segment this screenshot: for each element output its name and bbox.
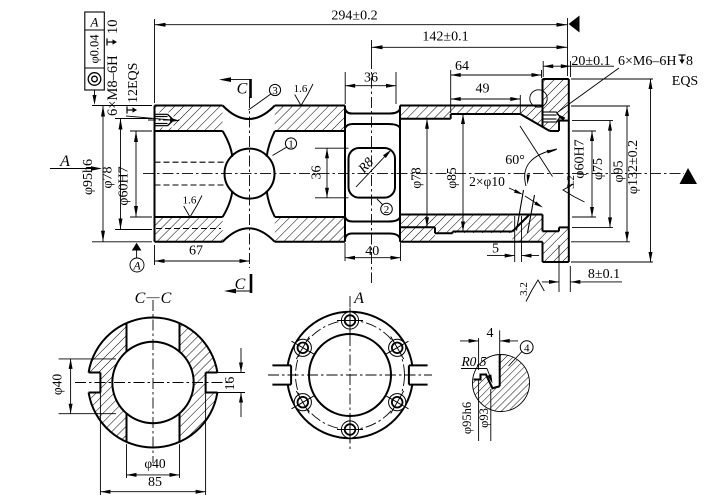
- view A outer circle: [288, 312, 413, 366]
- window opening 36x36 R8: [349, 148, 396, 198]
- recess face top: [558, 121, 560, 131]
- svg-text:—: —: [146, 289, 161, 304]
- dimension phi85: [462, 114, 464, 232]
- main axis centerline: [143, 173, 684, 175]
- svg-text:1: 1: [288, 139, 294, 151]
- svg-text:φ93: φ93: [477, 408, 491, 428]
- bore phi60 top-left: [155, 130, 223, 132]
- svg-text:5: 5: [492, 242, 499, 257]
- svg-text:φ95h6: φ95h6: [460, 402, 474, 434]
- svg-text:8: 8: [686, 54, 693, 69]
- svg-text:2×φ10: 2×φ10: [469, 174, 505, 189]
- detail 4 profile: [474, 375, 500, 389]
- dimension phi93 detail: [490, 389, 492, 441]
- dimension phi95: [571, 105, 630, 107]
- datum triangle right: [569, 16, 580, 33]
- svg-text:φ95h6: φ95h6: [81, 159, 96, 195]
- balloon 1: [285, 138, 296, 149]
- cross hole phi40: [225, 149, 275, 199]
- flange bottom: [543, 261, 569, 263]
- section C-C hatching: [88, 317, 218, 447]
- svg-text:C: C: [235, 276, 246, 293]
- svg-text:2: 2: [384, 204, 390, 216]
- detail boundary circle: [530, 90, 547, 107]
- hatch flange top region: [520, 79, 569, 131]
- bolt circle hidden line bottom: [156, 228, 221, 230]
- svg-text:6×M8–6H: 6×M8–6H: [105, 55, 121, 116]
- dimension phi60H7 right: [572, 130, 596, 132]
- inner line bottom h1: [400, 214, 543, 216]
- svg-text:4: 4: [487, 326, 494, 341]
- slot line b: [453, 231, 513, 233]
- M8 hole centerline: [148, 119, 179, 121]
- svg-text:R0.5: R0.5: [460, 354, 486, 369]
- neck saddle arc top: [223, 106, 275, 120]
- recess phi75 top: [559, 120, 569, 122]
- slot hidden lines: [155, 161, 225, 163]
- dimension 49: [519, 95, 521, 113]
- dimension phi95h6 detail: [478, 380, 480, 442]
- balloon 3: [269, 84, 280, 95]
- cross hole centerline: [249, 97, 251, 268]
- svg-text:φ0.04: φ0.04: [88, 34, 102, 64]
- recess phi75 bottom: [559, 226, 569, 228]
- cutting plane line C bottom: [250, 274, 253, 293]
- slot step: [452, 232, 454, 234]
- svg-text:φ78: φ78: [101, 166, 116, 188]
- dimension 40: [344, 243, 346, 261]
- hole blend arcs: [223, 131, 233, 157]
- cone 60deg top: [520, 114, 549, 131]
- section C-C outer arcs: [89, 317, 218, 372]
- dimension 67: [154, 245, 156, 265]
- roughness 3.2 right face: [563, 184, 585, 202]
- hatch bottom-mid band: [275, 217, 345, 242]
- dimension phi132: [571, 78, 653, 80]
- label depth 12 EQS: [126, 63, 141, 114]
- dimension phi40 left: [59, 358, 116, 360]
- view A bore circle: [309, 334, 391, 416]
- svg-text:3.2: 3.2: [565, 175, 577, 189]
- 2xphi10 hole lines: [517, 190, 524, 231]
- hatch top-left band: [155, 106, 223, 132]
- bore phi60 top-mid: [275, 130, 345, 132]
- svg-text:4: 4: [524, 343, 530, 355]
- svg-text:A: A: [90, 15, 99, 30]
- flange left face lower: [542, 242, 544, 262]
- dimension 4: [478, 338, 480, 370]
- svg-text:49: 49: [476, 82, 490, 97]
- section C-C bore circle: [112, 342, 193, 423]
- svg-text:A: A: [59, 153, 70, 170]
- svg-text:1.6: 1.6: [183, 195, 197, 207]
- svg-text:36: 36: [364, 71, 378, 86]
- svg-text:φ78: φ78: [409, 167, 424, 189]
- view A notches: [272, 364, 291, 366]
- detail 4 face extension: [499, 330, 501, 354]
- bore phi60 bottom-left: [155, 216, 223, 218]
- hatch bottom-left band: [155, 217, 223, 242]
- bore phi60 bottom-mid: [275, 216, 345, 218]
- svg-text:40: 40: [365, 244, 379, 259]
- neck saddle arc bottom: [223, 228, 275, 242]
- frame leader arrow: [94, 90, 96, 101]
- view A bolt circle: [296, 321, 405, 430]
- dimension 85: [99, 393, 101, 496]
- window far-side bottom edge: [345, 217, 400, 222]
- dimension 142: [371, 40, 373, 58]
- window section bottom flat: [345, 234, 400, 240]
- svg-text:3: 3: [272, 85, 278, 97]
- dimension 8: [558, 245, 560, 292]
- window section right edge: [399, 106, 401, 242]
- concentricity tolerance frame: [85, 12, 105, 90]
- svg-text:φ40: φ40: [144, 456, 166, 471]
- svg-text:36: 36: [310, 166, 325, 180]
- bore phi78 bottom: [400, 226, 435, 228]
- svg-text:A: A: [353, 290, 364, 307]
- window centerline: [371, 58, 373, 283]
- window section top flat: [345, 109, 400, 114]
- dimension phi78 left: [115, 118, 152, 120]
- svg-text:20±0.1: 20±0.1: [571, 54, 610, 69]
- svg-text:1.6: 1.6: [294, 83, 308, 95]
- left end face: [154, 106, 156, 242]
- dimension 16: [217, 372, 245, 374]
- window far-side top edge: [345, 124, 400, 129]
- outer surface bottom: [400, 241, 543, 243]
- bore step: [450, 114, 452, 119]
- 60deg angle arc: [525, 149, 557, 186]
- dimension 36 window height: [315, 147, 349, 149]
- svg-text:12EQS: 12EQS: [126, 63, 141, 103]
- dimension 5: [514, 216, 516, 262]
- svg-text:φ85: φ85: [444, 167, 459, 189]
- svg-text:67: 67: [189, 244, 203, 259]
- dimension 36 window: [344, 72, 346, 104]
- bore phi60H7 right: [550, 130, 559, 132]
- dimension phi75: [572, 120, 613, 122]
- 60deg cone construction line: [520, 126, 553, 177]
- svg-text:φ75: φ75: [591, 158, 606, 180]
- svg-text:φ60H7: φ60H7: [117, 166, 132, 205]
- flange top: [543, 78, 569, 80]
- balloon 2: [381, 203, 393, 215]
- roughness 1.6 top: [295, 84, 313, 106]
- dimension phi95h6: [92, 105, 152, 107]
- outer surface top-right: [400, 105, 543, 107]
- section C-C notches: [89, 372, 101, 374]
- recess step v2: [558, 227, 560, 231]
- step bottom: [434, 227, 436, 233]
- dimension phi78 mid: [426, 119, 428, 228]
- svg-text:C: C: [161, 290, 172, 307]
- dimension 64: [450, 70, 452, 113]
- window section left edge: [344, 106, 346, 242]
- svg-text:8±0.1: 8±0.1: [588, 267, 620, 282]
- svg-text:294±0.2: 294±0.2: [331, 9, 377, 24]
- outer surface top-left: [155, 105, 223, 107]
- detail 4 hatched circle: [473, 355, 530, 412]
- dimension 20: [542, 61, 544, 77]
- svg-text:16: 16: [222, 377, 237, 391]
- svg-text:φ95: φ95: [612, 160, 627, 182]
- hatch bottom-right region: [399, 215, 435, 242]
- roughness 3.2 flange bottom: [526, 280, 544, 302]
- roughness 1.6 bottom bore: [184, 196, 202, 218]
- hatch top-mid band: [275, 106, 345, 132]
- svg-text:EQS: EQS: [672, 74, 698, 89]
- svg-text:A: A: [132, 259, 141, 273]
- svg-text:φ132±0.2: φ132±0.2: [626, 140, 641, 194]
- balloon 4: [520, 341, 533, 354]
- slot line a: [435, 232, 453, 234]
- hatch top-right bands: [400, 106, 451, 119]
- M8 leader: [126, 116, 177, 121]
- svg-text:C: C: [135, 290, 146, 307]
- cutting plane line C top: [249, 79, 252, 98]
- section C-C window edges: [126, 323, 128, 352]
- tapped hole M6 flange: [544, 112, 557, 123]
- svg-text:φ60H7: φ60H7: [573, 139, 588, 178]
- svg-text:3.2: 3.2: [518, 282, 530, 296]
- R8 label: [356, 152, 389, 187]
- view A tapped holes M6: [341, 312, 358, 329]
- tapped hole M8 left: [155, 113, 174, 128]
- cone ramp bottom: [512, 215, 529, 232]
- bore phi85 top: [451, 113, 521, 115]
- svg-text:C: C: [237, 81, 248, 98]
- bore phi78 top: [400, 118, 451, 120]
- svg-text:64: 64: [455, 59, 469, 74]
- svg-text:142±0.1: 142±0.1: [422, 30, 468, 45]
- svg-text:10: 10: [105, 20, 121, 35]
- svg-text:φ40: φ40: [50, 374, 65, 396]
- dimension 294: [154, 19, 156, 103]
- label 6xM8-6H depth 10: [105, 20, 121, 117]
- recess bottom h4: [543, 230, 560, 232]
- section C-C centerlines: [152, 300, 154, 463]
- dimension phi60H7 left: [130, 130, 152, 132]
- svg-text:60°: 60°: [505, 153, 525, 168]
- outer surface top-mid: [275, 105, 345, 107]
- view A arrow: [50, 168, 98, 170]
- svg-text:6×M6–6H: 6×M6–6H: [618, 54, 676, 69]
- view A centerlines: [349, 296, 351, 452]
- right end face: [568, 79, 570, 262]
- dimension phi40 bottom: [126, 444, 128, 478]
- flange left face upper: [542, 79, 544, 127]
- datum A symbol: [132, 243, 142, 251]
- svg-text:85: 85: [148, 475, 162, 490]
- datum triangle far right: [680, 168, 698, 184]
